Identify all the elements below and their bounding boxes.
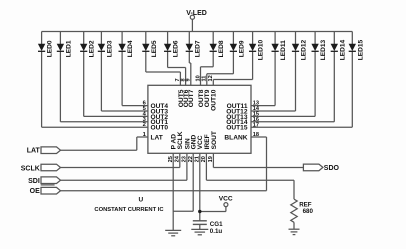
svg-text:BLANK: BLANK xyxy=(224,134,247,141)
svg-text:OUT15: OUT15 xyxy=(226,125,248,132)
svg-text:9: 9 xyxy=(186,78,192,81)
svg-text:LED14: LED14 xyxy=(339,39,346,60)
svg-text:V-LED: V-LED xyxy=(186,10,207,17)
svg-text:LED10: LED10 xyxy=(258,39,265,60)
svg-text:LED12: LED12 xyxy=(301,39,308,60)
svg-text:20: 20 xyxy=(201,156,207,162)
svg-text:CONSTANT CURRENT IC: CONSTANT CURRENT IC xyxy=(94,207,164,213)
svg-text:OUT7: OUT7 xyxy=(188,89,195,107)
svg-text:2: 2 xyxy=(143,122,146,128)
svg-text:LAT: LAT xyxy=(27,148,41,155)
svg-text:SOUT: SOUT xyxy=(211,131,218,149)
svg-text:SCLK: SCLK xyxy=(177,131,184,149)
svg-text:SDO: SDO xyxy=(324,165,340,172)
svg-text:LED0: LED0 xyxy=(47,40,54,57)
svg-text:LED13: LED13 xyxy=(320,39,327,60)
svg-text:VCC: VCC xyxy=(219,195,233,202)
svg-text:LED1: LED1 xyxy=(65,40,72,57)
svg-text:22: 22 xyxy=(188,156,194,162)
svg-text:24: 24 xyxy=(175,155,181,162)
svg-text:OUT0: OUT0 xyxy=(151,125,169,132)
svg-text:11: 11 xyxy=(202,76,208,82)
svg-text:IREF: IREF xyxy=(204,134,211,149)
svg-text:25: 25 xyxy=(168,156,174,162)
svg-text:12: 12 xyxy=(208,75,214,81)
svg-text:LED6: LED6 xyxy=(173,40,180,57)
svg-text:19: 19 xyxy=(208,156,214,162)
svg-text:SCLK: SCLK xyxy=(21,166,40,173)
svg-text:LED8: LED8 xyxy=(218,40,225,57)
svg-text:21: 21 xyxy=(195,156,201,162)
svg-text:LED2: LED2 xyxy=(89,40,96,57)
svg-text:U: U xyxy=(138,197,143,204)
svg-text:LED3: LED3 xyxy=(106,40,113,57)
svg-text:OE: OE xyxy=(30,188,40,195)
svg-text:18: 18 xyxy=(253,132,259,138)
svg-text:LED9: LED9 xyxy=(238,40,245,57)
svg-text:SDI: SDI xyxy=(28,178,40,185)
svg-text:LED7: LED7 xyxy=(194,40,201,57)
svg-text:LED4: LED4 xyxy=(127,40,134,57)
svg-text:LED11: LED11 xyxy=(280,40,287,60)
svg-text:LED15: LED15 xyxy=(357,39,364,60)
svg-text:OUT10: OUT10 xyxy=(211,89,218,111)
svg-text:23: 23 xyxy=(182,156,188,162)
svg-text:680: 680 xyxy=(303,208,314,215)
svg-text:0.1u: 0.1u xyxy=(210,228,223,235)
svg-text:10: 10 xyxy=(195,75,201,81)
svg-text:17: 17 xyxy=(253,122,259,128)
svg-text:LAT: LAT xyxy=(151,134,163,141)
svg-text:LED5: LED5 xyxy=(151,40,158,57)
